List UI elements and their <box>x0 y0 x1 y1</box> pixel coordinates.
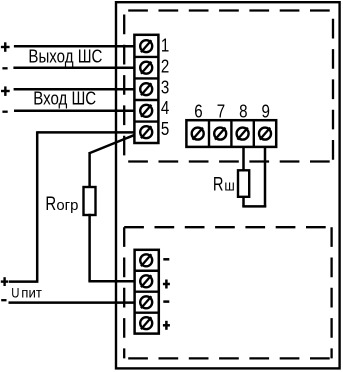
svg-text:3: 3 <box>161 76 169 97</box>
wire Rогр to bottom terminal 2 (horizontal) <box>88 280 139 283</box>
minus label wire 4 <box>2 111 7 113</box>
power terminal 4 screw <box>140 317 152 329</box>
wire Rш bottom <box>242 197 245 207</box>
svg-text:ш: ш <box>224 178 234 195</box>
wire -Uпит to bottom terminal 3 <box>9 301 140 304</box>
svg-text:R: R <box>45 194 56 215</box>
minus label wire 2 <box>2 67 7 69</box>
svg-text:R: R <box>213 175 224 196</box>
svg-text:Выход ШС: Выход ШС <box>28 46 102 67</box>
terminal 8 screw <box>237 128 249 140</box>
svg-text:1: 1 <box>161 35 169 56</box>
terminal 3 screw <box>140 83 152 95</box>
power terminal 2 screw <box>140 275 152 287</box>
plus label power terminal 4 <box>163 321 170 330</box>
plus label wire 1 <box>1 42 10 52</box>
resistor Rогр <box>84 187 96 215</box>
terminal block XT3 power terminals outline <box>135 250 159 334</box>
svg-text:2: 2 <box>161 56 169 77</box>
terminal block XT2 terminals 6-9 outline <box>186 120 276 147</box>
wire from +Uпит up to terminal 5 (horizontal top) <box>37 131 139 134</box>
plus label wire 3 <box>1 86 10 96</box>
terminal 1 screw <box>140 40 152 52</box>
wire Rш to terminal 9 (horizontal) <box>242 205 266 208</box>
resistor Rш <box>238 170 249 197</box>
power terminal 3 screw <box>140 296 152 308</box>
wire + to terminal 1 <box>14 45 139 48</box>
terminal 7 screw <box>214 128 226 140</box>
wire - to terminal 4 <box>14 110 139 113</box>
svg-text:6: 6 <box>194 101 202 122</box>
device outline (solid rectangle) <box>116 2 340 368</box>
terminal block XT1 terminals 1-5 outline <box>134 35 158 143</box>
svg-text:4: 4 <box>161 97 169 118</box>
terminal block XT1 dividers <box>134 57 158 122</box>
svg-text:8: 8 <box>239 101 247 122</box>
plus label Uпит <box>1 277 9 286</box>
wire terminal 8 to Rш <box>242 147 245 171</box>
wire + to terminal 3 <box>14 88 140 91</box>
svg-text:7: 7 <box>217 101 225 122</box>
terminal 9 screw <box>259 128 271 140</box>
svg-text:пит: пит <box>21 284 42 300</box>
wire +Uпит (horizontal bottom) <box>9 280 38 283</box>
wire to Rогр top (vertical) <box>88 152 91 188</box>
terminal 6 screw <box>192 128 204 140</box>
minus label Uпит <box>1 299 6 301</box>
svg-text:9: 9 <box>262 101 270 122</box>
svg-text:5: 5 <box>161 118 169 139</box>
terminal 4 screw <box>140 105 152 117</box>
minus label power terminal 3 <box>163 300 169 303</box>
terminal 2 screw <box>140 62 152 74</box>
terminal 5 screw <box>140 126 152 138</box>
dashed board section (top) <box>124 11 333 162</box>
terminal block XT3 dividers <box>135 271 159 313</box>
minus label power terminal 1 <box>163 258 169 261</box>
power terminal 1 screw <box>140 254 152 266</box>
wire from +Uпит up to terminal 5 (vertical) <box>36 131 39 281</box>
wire Rогр bottom to bottom terminal 2 (vertical) <box>88 214 91 281</box>
wire - to terminal 2 <box>13 66 139 69</box>
svg-text:U: U <box>11 284 19 300</box>
terminal block XT2 dividers <box>209 120 254 147</box>
dashed board section (bottom) <box>124 227 331 358</box>
plus label power terminal 2 <box>163 280 170 289</box>
svg-text:Вход ШС: Вход ШС <box>33 87 96 108</box>
svg-text:огр: огр <box>56 197 78 214</box>
wire terminal 9 (vertical) <box>264 147 267 207</box>
wire terminal 5 to Rогр (diagonal) <box>90 133 140 153</box>
